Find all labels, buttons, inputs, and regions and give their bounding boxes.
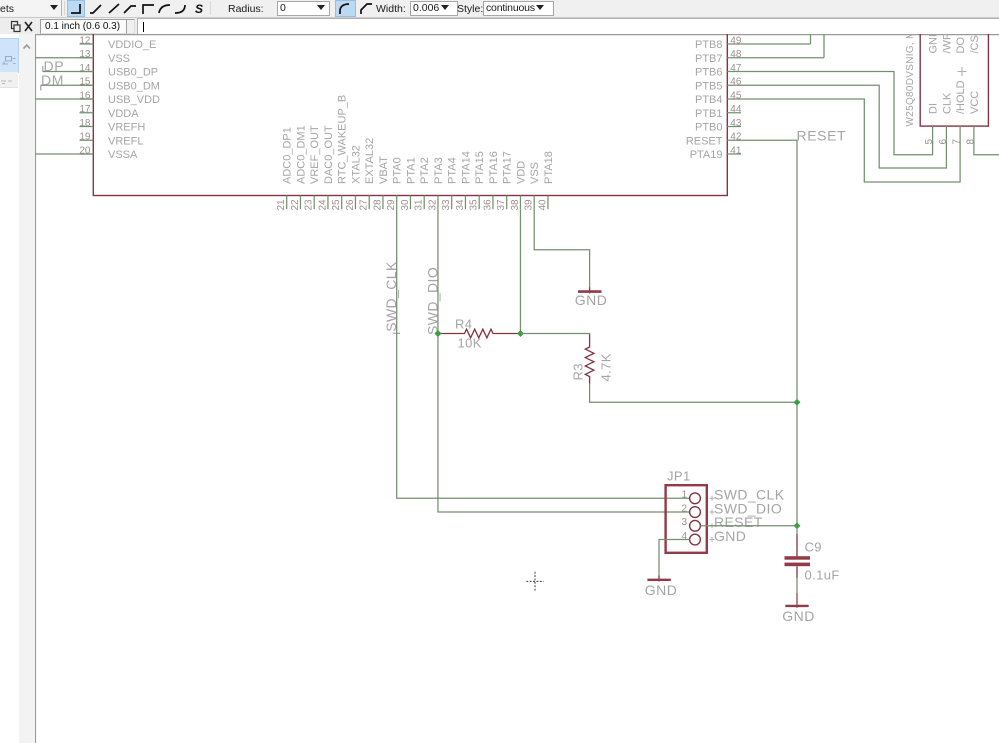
IC U1 pin 27 EXTAL32 bbox=[359, 138, 377, 211]
svg-text:6: 6 bbox=[938, 139, 949, 145]
cursor crosshair bbox=[526, 572, 544, 591]
svg-text:PTA16: PTA16 bbox=[488, 151, 500, 184]
svg-text:R4: R4 bbox=[455, 317, 472, 332]
svg-text:USB_VDD: USB_VDD bbox=[108, 94, 160, 106]
IC U1 pin 19 VREFL bbox=[79, 132, 143, 148]
origin cross U8 bbox=[958, 67, 967, 76]
IC U1 pin 16 USB_VDD bbox=[79, 90, 160, 106]
wire C9 to GND bbox=[796, 578, 798, 593]
svg-text:W25Q80DVSNIG, M8S: W25Q80DVSNIG, M8S bbox=[905, 34, 916, 127]
svg-text:JP1: JP1 bbox=[667, 469, 691, 484]
net label DM bbox=[41, 72, 64, 91]
svg-text:PTB6: PTB6 bbox=[695, 67, 723, 79]
svg-text:43: 43 bbox=[730, 118, 742, 129]
svg-text:DI: DI bbox=[928, 103, 940, 114]
IC U1 pin 32 PTA3 bbox=[427, 157, 445, 210]
svg-text:VSSA: VSSA bbox=[108, 149, 138, 161]
svg-text:2: 2 bbox=[681, 503, 687, 514]
svg-text:PTB4: PTB4 bbox=[695, 94, 723, 106]
IC U1 pin 33 PTA4 bbox=[441, 157, 459, 210]
svg-text:PTA19: PTA19 bbox=[690, 149, 723, 161]
svg-text:46: 46 bbox=[730, 77, 742, 88]
svg-text:C9: C9 bbox=[805, 540, 822, 555]
svg-text:DAC0_OUT: DAC0_OUT bbox=[323, 125, 335, 184]
svg-text:VREFL: VREFL bbox=[108, 135, 143, 147]
svg-text:VCC: VCC bbox=[969, 91, 981, 114]
net label DP bbox=[43, 58, 64, 74]
svg-text:/CS: /CS bbox=[969, 35, 981, 53]
IC U1 pin 18 VREFH bbox=[79, 118, 145, 134]
svg-text:PTB5: PTB5 bbox=[695, 80, 723, 92]
svg-text:SWD_CLK: SWD_CLK bbox=[383, 261, 399, 332]
wire PTB7 net bbox=[741, 57, 824, 59]
IC U1 pin 28 VBAT bbox=[372, 156, 390, 211]
wire VDD pin38 down bbox=[519, 209, 521, 333]
svg-text:PTB8: PTB8 bbox=[695, 39, 723, 51]
IC U1 pin 42 RESET bbox=[686, 132, 742, 148]
resistor R3 bbox=[585, 335, 594, 384]
svg-text:USB0_DP: USB0_DP bbox=[108, 67, 158, 79]
net label SWD_CLK bbox=[383, 261, 400, 333]
svg-text:S: S bbox=[195, 2, 203, 16]
wire RESET net bbox=[741, 140, 797, 526]
IC U1 pin 21 ADC0_DP1 bbox=[276, 127, 294, 210]
wire VDD to R3 bbox=[520, 334, 589, 336]
svg-text:41: 41 bbox=[730, 145, 742, 156]
svg-text:VDDA: VDDA bbox=[108, 108, 139, 120]
svg-text:7: 7 bbox=[952, 139, 963, 145]
IC U1 pin 36 PTA16 bbox=[482, 151, 500, 210]
svg-text:CLK: CLK bbox=[941, 92, 953, 114]
IC U1 pin 40 PTA18 bbox=[537, 151, 555, 210]
svg-text:XTAL32: XTAL32 bbox=[350, 145, 362, 184]
IC U1 pin 20 VSSA bbox=[79, 145, 138, 161]
IC U1 pin 13 VSS bbox=[79, 49, 130, 65]
svg-text:25: 25 bbox=[331, 199, 342, 211]
svg-text:15: 15 bbox=[79, 77, 91, 88]
svg-text:/HOLD: /HOLD bbox=[955, 80, 967, 114]
svg-text:27: 27 bbox=[359, 199, 370, 211]
svg-text:GND: GND bbox=[714, 528, 746, 544]
svg-text:38: 38 bbox=[510, 199, 521, 211]
svg-text:17: 17 bbox=[79, 104, 91, 115]
svg-text:VREF_OUT: VREF_OUT bbox=[309, 125, 321, 184]
svg-text:3: 3 bbox=[681, 517, 687, 528]
IC U1 pin 44 PTB1 bbox=[695, 104, 742, 120]
svg-text:10K: 10K bbox=[458, 336, 482, 351]
net label SWD_CLK bbox=[710, 487, 785, 503]
svg-text:32: 32 bbox=[427, 199, 438, 211]
IC U1 pin 41 PTA19 bbox=[690, 145, 742, 161]
svg-text:PTA4: PTA4 bbox=[447, 157, 459, 184]
svg-text:VSS: VSS bbox=[529, 162, 541, 184]
svg-text:24: 24 bbox=[317, 199, 328, 211]
svg-text:28: 28 bbox=[372, 199, 383, 211]
svg-text:VDD: VDD bbox=[515, 161, 527, 184]
svg-text:48: 48 bbox=[730, 49, 742, 60]
junction R3/RESET bbox=[794, 399, 801, 406]
svg-text:RESET: RESET bbox=[686, 135, 723, 147]
IC U1 pin 46 PTB5 bbox=[695, 77, 742, 93]
svg-text:8: 8 bbox=[965, 139, 976, 145]
wire VSS pin39 to GND bbox=[534, 209, 589, 287]
IC U1 pin 29 PTA0 bbox=[386, 157, 404, 210]
svg-text:PTA3: PTA3 bbox=[433, 157, 445, 184]
svg-text:14: 14 bbox=[79, 63, 91, 74]
IC U8 pin 5 DI bbox=[924, 29, 940, 145]
svg-text:SWD_DIO: SWD_DIO bbox=[425, 267, 441, 335]
IC U1 pin 43 PTB0 bbox=[695, 118, 742, 134]
IC U1 pin 12 VDDIO_E bbox=[79, 35, 156, 51]
IC U1 pin 39 VSS bbox=[524, 162, 542, 211]
svg-text:DM: DM bbox=[41, 72, 64, 88]
svg-text:5: 5 bbox=[924, 139, 935, 145]
wire PTB8 net bbox=[741, 43, 811, 45]
svg-text:PTA14: PTA14 bbox=[460, 151, 472, 184]
svg-text:23: 23 bbox=[304, 199, 315, 211]
wire VSSA pin20 to edge bbox=[34, 153, 93, 155]
svg-text:VBAT: VBAT bbox=[378, 156, 390, 184]
capacitor C9 bbox=[785, 526, 811, 578]
wire DP net pin14 bbox=[43, 71, 94, 73]
wire VSS pin13 to edge bbox=[34, 57, 93, 59]
svg-text:36: 36 bbox=[482, 199, 493, 211]
IC U1 pin 37 PTA17 bbox=[496, 151, 514, 210]
svg-text:45: 45 bbox=[730, 90, 742, 101]
svg-text:DO: DO bbox=[955, 37, 967, 54]
svg-text:39: 39 bbox=[524, 199, 535, 211]
IC U1 pin 22 ADC0_DM1 bbox=[290, 125, 308, 210]
svg-text:PTA2: PTA2 bbox=[419, 157, 431, 184]
net label GND bbox=[710, 528, 747, 544]
svg-text:PTA18: PTA18 bbox=[543, 151, 555, 184]
svg-text:29: 29 bbox=[386, 199, 397, 211]
connector JP1 pin 4 bbox=[681, 531, 700, 545]
svg-text:ADC0_DM1: ADC0_DM1 bbox=[295, 125, 307, 184]
IC U1 pin 25 RTC_WAKEUP_B bbox=[331, 95, 349, 211]
IC U1 pin 45 PTB4 bbox=[695, 90, 742, 106]
IC U1 pin 48 PTB7 bbox=[695, 49, 742, 65]
svg-text:VREFH: VREFH bbox=[108, 122, 145, 134]
junction RESET/C9/JP1 bbox=[794, 522, 801, 529]
svg-text:VDDIO_E: VDDIO_E bbox=[108, 39, 156, 51]
connector JP1 pin 1 bbox=[681, 490, 700, 504]
svg-text:/WP: /WP bbox=[941, 34, 953, 54]
IC U8 pin 7 /HOLD bbox=[952, 37, 968, 145]
svg-text:21: 21 bbox=[276, 199, 287, 211]
net label RESET bbox=[710, 514, 763, 530]
svg-text:12: 12 bbox=[79, 35, 91, 46]
IC U1 pin 15 USB0_DM bbox=[79, 77, 160, 93]
ground GND (JP1 pin4) bbox=[645, 575, 678, 598]
IC U1 pin 24 DAC0_OUT bbox=[317, 125, 335, 210]
IC U1 pin 31 PTA2 bbox=[414, 157, 432, 210]
svg-text:PTA17: PTA17 bbox=[502, 151, 514, 184]
svg-text:PTA1: PTA1 bbox=[405, 157, 417, 184]
wire JP1 pin4 to GND bbox=[659, 540, 690, 576]
svg-text:RTC_WAKEUP_B: RTC_WAKEUP_B bbox=[337, 95, 349, 184]
svg-text:4.7K: 4.7K bbox=[599, 353, 614, 381]
wire R3 to RESET net bbox=[590, 384, 797, 403]
IC U1 pin 30 PTA1 bbox=[400, 157, 418, 210]
svg-text:49: 49 bbox=[730, 35, 742, 46]
IC U1 pin 34 PTA14 bbox=[455, 151, 473, 210]
wire DM net pin15 bbox=[41, 84, 94, 86]
svg-text:37: 37 bbox=[496, 199, 507, 211]
IC U8 pin 6 CLK bbox=[938, 33, 954, 145]
IC U1 pin 23 VREF_OUT bbox=[304, 125, 322, 210]
wire SWD_CLK net bbox=[397, 209, 690, 498]
svg-text:33: 33 bbox=[441, 199, 452, 211]
connector JP1 pin 2 bbox=[681, 503, 700, 517]
svg-text:PTA15: PTA15 bbox=[474, 151, 486, 184]
IC U1 body bbox=[93, 20, 727, 196]
svg-text:0.1uF: 0.1uF bbox=[805, 568, 840, 583]
svg-text:PTB1: PTB1 bbox=[695, 108, 723, 120]
wire PTB6 to flash DI bbox=[741, 72, 933, 155]
IC U8 W25Q80DVSNIG body bbox=[920, 14, 988, 126]
svg-text:USB0_DM: USB0_DM bbox=[108, 80, 160, 92]
svg-text:GND: GND bbox=[928, 34, 940, 54]
svg-text:20: 20 bbox=[79, 145, 91, 156]
svg-text:16: 16 bbox=[79, 90, 91, 101]
svg-text:1: 1 bbox=[681, 490, 687, 501]
svg-text:4: 4 bbox=[681, 531, 687, 542]
svg-text:GND: GND bbox=[782, 608, 815, 624]
svg-text:19: 19 bbox=[79, 132, 91, 143]
svg-text:40: 40 bbox=[537, 199, 548, 211]
svg-text:PTA0: PTA0 bbox=[392, 157, 404, 184]
IC U1 pin 17 VDDA bbox=[79, 104, 139, 120]
svg-text:47: 47 bbox=[730, 63, 742, 74]
IC U1 pin 14 USB0_DP bbox=[79, 63, 158, 79]
svg-text:31: 31 bbox=[414, 199, 425, 211]
ground GND (VSS net) bbox=[575, 287, 608, 308]
svg-text:GND: GND bbox=[575, 292, 608, 308]
IC U1 pin 38 VDD bbox=[510, 161, 528, 211]
IC U1 pin 26 XTAL32 bbox=[345, 145, 363, 210]
svg-text:34: 34 bbox=[455, 199, 466, 211]
svg-text:VSS: VSS bbox=[108, 53, 130, 65]
svg-text:ADC0_DP1: ADC0_DP1 bbox=[282, 127, 294, 184]
svg-text:42: 42 bbox=[730, 132, 742, 143]
wire PTB5 to flash CLK bbox=[741, 85, 946, 168]
wire USB_VDD pin16 to edge bbox=[34, 98, 93, 100]
wire PTB4 to flash /HOLD bbox=[741, 99, 960, 182]
svg-text:13: 13 bbox=[79, 49, 91, 60]
wire SWD_DIO net bbox=[438, 209, 689, 512]
svg-text:26: 26 bbox=[345, 199, 356, 211]
connector JP1 body bbox=[666, 485, 707, 553]
IC U1 pin 49 PTB8 bbox=[695, 35, 742, 51]
junction VDD/R4 bbox=[517, 330, 524, 337]
junction SWD_DIO/R4 bbox=[434, 330, 441, 337]
wire JP1 pin3 to RESET bbox=[700, 525, 797, 527]
svg-text:PTB7: PTB7 bbox=[695, 53, 723, 65]
wire VCC from flash pin8 bbox=[974, 140, 999, 155]
ground GND (C9) bbox=[782, 593, 815, 624]
IC U1 pin 47 PTB6 bbox=[695, 63, 742, 79]
svg-text:18: 18 bbox=[79, 118, 91, 129]
resistor R4 bbox=[438, 329, 520, 338]
svg-text:EXTAL32: EXTAL32 bbox=[364, 138, 376, 184]
svg-text:44: 44 bbox=[730, 104, 742, 115]
IC U8 pin 8 VCC bbox=[965, 35, 981, 144]
connector JP1 pin 3 bbox=[681, 517, 700, 531]
svg-text:35: 35 bbox=[469, 199, 480, 211]
svg-text:GND: GND bbox=[645, 582, 678, 598]
svg-text:30: 30 bbox=[400, 199, 411, 211]
net label SWD_DIO bbox=[710, 500, 783, 516]
svg-text:PTB0: PTB0 bbox=[695, 122, 723, 134]
svg-text:22: 22 bbox=[290, 199, 301, 211]
IC U1 pin 35 PTA15 bbox=[469, 151, 487, 210]
svg-text:RESET: RESET bbox=[797, 127, 847, 143]
svg-text:R3: R3 bbox=[571, 363, 586, 380]
